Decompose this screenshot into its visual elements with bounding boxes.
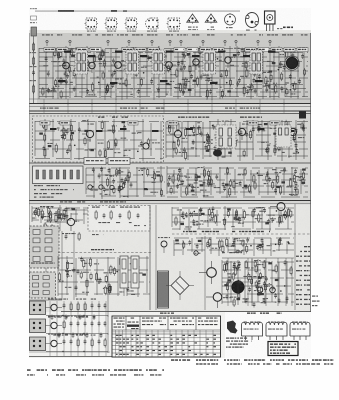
upper-right driver transistor — [277, 203, 285, 211]
notes text block — [226, 338, 252, 348]
band 4 left-middle mesh — [58, 256, 150, 297]
output stage right components — [222, 252, 294, 308]
label box B — [108, 158, 130, 165]
band 1 top label row — [42, 34, 308, 35]
left column wires band 4 — [29, 231, 62, 300]
audio stage 2 transistor — [51, 322, 57, 328]
output stage extra mesh — [222, 259, 294, 305]
switch bank box — [33, 166, 84, 184]
transistor TS1 — [86, 130, 93, 137]
band 2 labels — [98, 117, 262, 118]
long vertical wires — [74, 204, 295, 310]
IF can band 2 left — [216, 125, 236, 148]
parts list column right — [296, 246, 310, 305]
band 4 upper right mesh — [172, 206, 294, 231]
tube socket diagram B5 — [167, 18, 182, 32]
bus labels — [40, 108, 260, 109]
title rule line — [35, 10, 240, 12]
driver transistor TS7 — [207, 268, 217, 278]
transistor base view T1 — [187, 14, 199, 30]
dark component blob band 2 — [213, 149, 222, 156]
footer text left row 2 — [27, 374, 162, 375]
audio stage 3 transistor — [51, 340, 57, 346]
coil diagram 1 — [242, 322, 263, 341]
frame borders — [30, 33, 312, 312]
bus wires below band 1 — [29, 99, 311, 114]
tube V5 — [193, 59, 199, 65]
chassis key dark shape — [227, 321, 238, 334]
band 3 trimmer circles — [88, 185, 123, 190]
coil diagram 3 — [290, 322, 310, 341]
footer text right row 1 — [171, 359, 334, 361]
output transformer (striped) — [158, 271, 169, 308]
transistor TS6 — [67, 218, 74, 225]
tube V1 — [63, 62, 70, 69]
band 2 wiring mesh — [35, 119, 163, 161]
power transistor outline view — [246, 13, 259, 31]
tone control circle — [194, 251, 198, 255]
audio stage 1 transistor — [51, 304, 57, 310]
AF preamp mesh — [174, 237, 294, 256]
tube V3 — [115, 62, 122, 69]
band 1 wiring mesh — [39, 46, 308, 100]
right margin tiny text — [312, 296, 320, 307]
label box A — [84, 158, 106, 165]
rectifier bridge diamond — [166, 271, 194, 300]
band 1 dark inductor bars — [58, 51, 276, 85]
upper bands tone veil — [29, 33, 311, 204]
tuner block upper (shaded) — [30, 226, 60, 268]
transistor base view T3 (round) — [225, 13, 236, 28]
voltage table — [112, 316, 221, 357]
footer text right row 2 — [196, 363, 333, 364]
band 2 dark bars — [50, 128, 295, 132]
IF can band 2 right — [276, 125, 291, 147]
audio stage 2 input box — [30, 319, 46, 333]
rectifier stack symbol — [265, 11, 283, 31]
dark rect right edge — [299, 112, 306, 119]
dashed AM/FM divider — [58, 252, 152, 254]
output transistor TS8 — [213, 293, 222, 302]
transistor TS5 — [289, 128, 296, 135]
coil diagram 2 — [266, 322, 287, 341]
bottom-left lower rail — [29, 352, 168, 357]
bus strip components — [44, 99, 285, 113]
band 4 panel — [29, 204, 311, 311]
shaded band 1 panel — [37, 33, 311, 103]
footer text left row 1 — [27, 369, 164, 371]
coil labels — [247, 313, 282, 314]
tuner block lower (shaded) — [30, 272, 56, 298]
transistor TS4 — [238, 128, 245, 135]
warning boxed label — [268, 342, 298, 356]
band 1 white label chips — [44, 48, 308, 52]
dial lamp circle — [161, 241, 167, 247]
transistor base view T2 — [205, 14, 217, 30]
scan blotch overlay — [29, 33, 311, 311]
node +B label — [283, 27, 286, 29]
band 4 upper-left components — [40, 205, 146, 241]
shaded band 3 panel — [29, 163, 311, 204]
audio section vertical wires — [48, 301, 106, 356]
audio stage 1 components — [46, 297, 108, 317]
band 2 white label chips — [40, 121, 280, 125]
audio stage 2 components — [46, 315, 108, 335]
bus wires below band 3 — [29, 201, 311, 204]
tube socket diagram B3 — [125, 18, 139, 32]
band 2 bottom rule — [29, 162, 311, 164]
band 3 wiring mesh — [86, 166, 165, 199]
tube socket diagram B2 — [105, 18, 119, 32]
transistor TS3 — [174, 130, 181, 137]
tube V6 — [225, 57, 231, 63]
IF can band 4 — [120, 256, 128, 296]
metal can filter (dark) — [286, 57, 297, 68]
oscillator dashed box — [88, 206, 150, 232]
aerial input components — [30, 8, 38, 103]
bus labels band 3 — [34, 197, 126, 203]
tube socket diagram B1 — [85, 18, 99, 32]
shaded band 2 panel — [29, 113, 311, 163]
tube V2 — [89, 62, 95, 68]
transistor TS2 — [143, 143, 149, 149]
tube socket diagram B4 (D-shape) — [146, 18, 159, 32]
audio stage 3 input box — [30, 337, 46, 351]
IF transformer cans band 1 — [75, 50, 263, 74]
scan grain overlay — [29, 8, 311, 358]
IF can band 4 second — [131, 256, 139, 288]
band 1 top connector nodes — [46, 40, 271, 46]
audio stage 1 input box — [30, 301, 46, 315]
band 2 left dashed enclosure — [33, 116, 164, 162]
audio stage 3 components — [46, 333, 108, 353]
schematic paper background — [29, 30, 311, 358]
table caption — [160, 313, 164, 314]
band 4 upper-left mesh — [32, 206, 88, 224]
dashed section divider with labels — [172, 231, 311, 234]
switch bank labels — [34, 185, 74, 194]
electrolytic capacitor (dark) — [232, 281, 244, 293]
tube V4 — [166, 62, 173, 69]
